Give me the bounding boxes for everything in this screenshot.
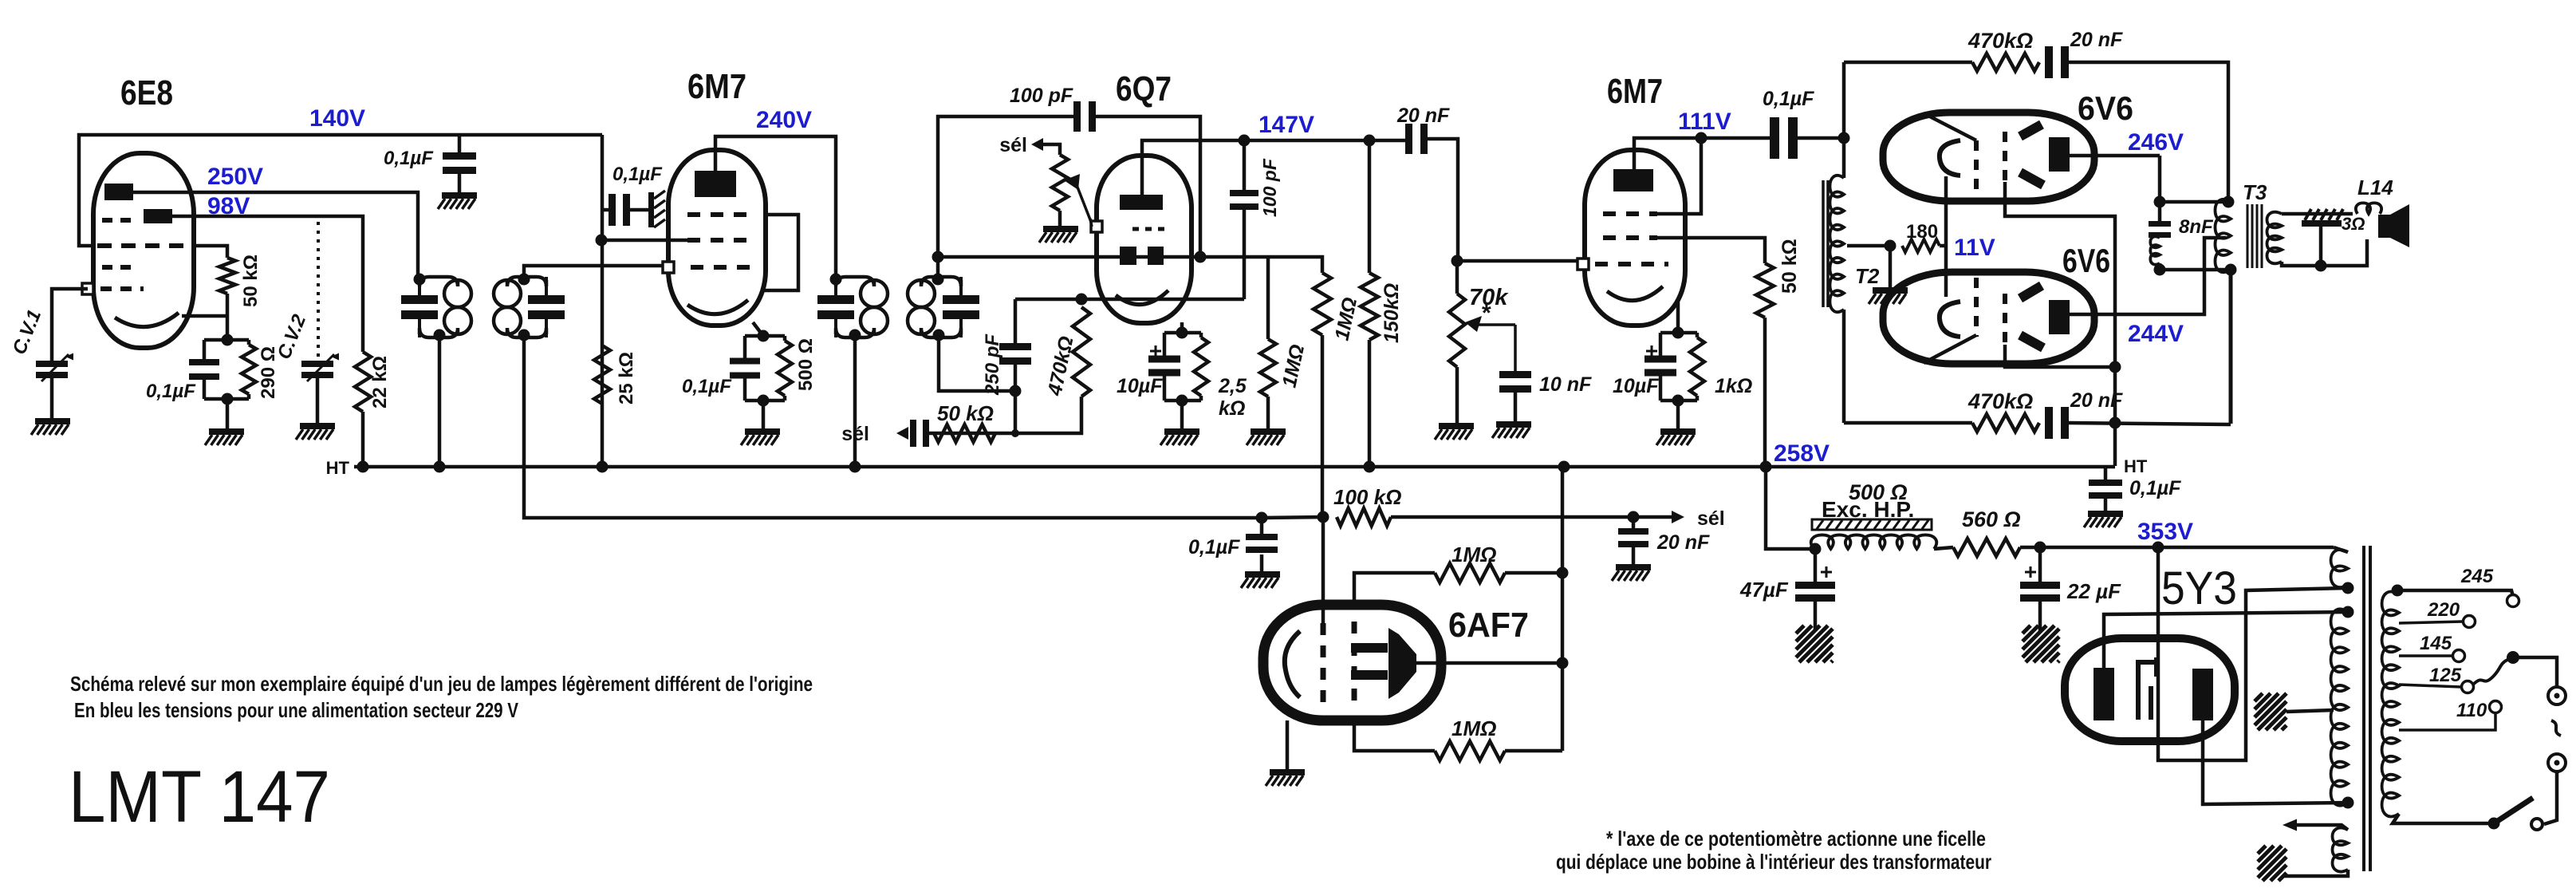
wire feedback bottom left — [1844, 421, 1972, 425]
tube 6V6 second — [1883, 272, 2094, 364]
wire grid4 to C.V.1 — [52, 289, 88, 361]
junction 250pF bottom — [1010, 385, 1022, 397]
6M7 anode plate — [695, 171, 736, 197]
label T2 — [1855, 264, 1880, 288]
resistor 470kΩ top — [1972, 53, 2039, 71]
svg-text:1MΩ: 1MΩ — [1451, 716, 1496, 740]
ground C.V.2 — [296, 423, 335, 440]
wire T3 bottom drop — [2229, 270, 2233, 424]
shield bar — [648, 191, 665, 227]
svg-text:sél: sél — [1697, 507, 1725, 530]
ground 10nF — [1492, 421, 1531, 438]
label 250V — [207, 164, 263, 190]
wire 246V — [2070, 154, 2160, 158]
6V6-1 beam plate up — [2020, 124, 2042, 136]
label 150kΩ — [1381, 283, 1403, 343]
ground HV center — [2255, 693, 2334, 730]
switch lever — [2494, 798, 2533, 823]
label 50kΩ — [240, 255, 262, 307]
junction 8nF bottom — [2154, 264, 2166, 276]
svg-text:kΩ: kΩ — [1219, 397, 1245, 420]
label 0,1µF 6E8 — [146, 381, 196, 402]
junction diode can4 — [932, 251, 944, 263]
ground 180 — [1869, 246, 1908, 304]
capacitor 22µF — [2020, 547, 2060, 602]
wire tap 145 — [2399, 654, 2452, 657]
resistor 470kΩ bottom — [1972, 414, 2039, 432]
6Q7 grid square — [1091, 221, 1102, 232]
transformer T3 primary — [2216, 199, 2231, 272]
junction can2 bottom — [518, 330, 530, 341]
wire grid 6M7-2 — [1457, 259, 1578, 263]
6V6-2 grid col2 — [2003, 294, 2007, 345]
svg-text:0,1µF: 0,1µF — [146, 381, 196, 402]
mech link C.V.2 — [317, 222, 320, 357]
junction T2 top — [1838, 132, 1850, 144]
wire 22k to HT — [361, 412, 365, 467]
label 0,1µF rail — [384, 148, 434, 169]
wire T2 bottom — [1842, 310, 1846, 423]
label 1MΩ bottom — [1451, 716, 1496, 740]
6V6-1 anode — [2049, 137, 2070, 172]
label 500Ω — [795, 338, 817, 391]
6E8 grid row 3 — [102, 265, 139, 270]
svg-text:244V: 244V — [2128, 321, 2184, 347]
svg-text:250V: 250V — [207, 164, 263, 190]
6M7 cathode — [687, 300, 748, 314]
transformer T2 winding — [1830, 176, 1844, 312]
ground 0,1µF HT — [2084, 499, 2123, 527]
svg-text:100 pF: 100 pF — [1010, 85, 1073, 107]
wire screen 6M7 — [601, 239, 687, 243]
svg-text:0,1µF: 0,1µF — [1763, 88, 1814, 110]
junction HT 22k — [357, 461, 369, 473]
svg-text:8nF: 8nF — [2179, 216, 2214, 238]
wire to T3 top — [2160, 200, 2228, 204]
wire 470k bottom — [923, 397, 1081, 433]
6V6-2 grid lead — [1924, 335, 1976, 363]
junction 111V — [1696, 132, 1707, 144]
footnote line 1 — [1606, 827, 1986, 851]
6M7-2 grid row1 — [1603, 211, 1657, 216]
svg-text:150kΩ: 150kΩ — [1381, 283, 1403, 343]
title LMT 147 — [69, 756, 330, 838]
label 258V — [1774, 440, 1830, 467]
junction 22µF — [2034, 542, 2046, 554]
6M7-2 cathode — [1607, 286, 1663, 301]
label 20 nF bottom — [2070, 389, 2123, 412]
capacitor 8nF — [2149, 221, 2171, 238]
6AF7 grid col2 — [1352, 622, 1357, 704]
tube 6M7 label — [687, 67, 746, 106]
junction feedback bottom — [2109, 417, 2121, 429]
label 180 — [1906, 221, 1938, 243]
wire 5Y3 right anode — [2203, 720, 2348, 804]
pot wiper — [1064, 174, 1091, 222]
selector contact — [2507, 651, 2519, 664]
label HT left — [326, 458, 350, 478]
svg-text:258V: 258V — [1774, 440, 1830, 467]
label C.V.1 — [9, 307, 46, 358]
svg-text:11V: 11V — [1954, 235, 1995, 261]
svg-text:HT: HT — [326, 458, 350, 478]
winding W3 — [2333, 828, 2349, 872]
svg-text:100 pF: 100 pF — [1259, 158, 1280, 217]
wire 0,1µF to T2 — [1798, 136, 1844, 140]
resistor 22kΩ — [355, 352, 371, 412]
6E8 grid row 1 — [102, 218, 139, 223]
IF can 1 — [401, 277, 471, 337]
6Q7 diode plate right — [1148, 247, 1164, 265]
svg-text:6E8: 6E8 — [120, 73, 173, 112]
label HT right — [2124, 456, 2148, 476]
svg-text:20 nF: 20 nF — [2070, 29, 2123, 51]
ground 20nF sel — [1612, 547, 1651, 581]
svg-text:180: 180 — [1906, 221, 1938, 243]
choke Exc HP coil — [1811, 535, 1936, 549]
wire 50k down — [226, 294, 230, 340]
junction can4 bottom — [933, 330, 945, 341]
6E8 anode plate — [104, 184, 133, 200]
tube 6Q7 — [1097, 156, 1191, 323]
label 470kΩ bottom — [1967, 389, 2033, 413]
label 1kΩ — [1715, 375, 1752, 397]
resistor 180 — [1902, 239, 1940, 252]
6V6-2 beam plate up — [2020, 286, 2042, 298]
label Exc HP — [1822, 497, 1914, 522]
svg-text:100 kΩ: 100 kΩ — [1333, 485, 1401, 509]
ground 500Ω — [741, 428, 780, 445]
svg-text:5Y3: 5Y3 — [2161, 562, 2237, 614]
junction 140V drop — [596, 235, 608, 247]
capacitor 10 nF — [1499, 371, 1531, 421]
wire 111V — [1634, 138, 1771, 169]
svg-text:0,1µF: 0,1µF — [1188, 536, 1240, 558]
svg-text:1MΩ: 1MΩ — [1451, 543, 1496, 566]
label 110 — [2456, 700, 2487, 721]
svg-text:2,5: 2,5 — [1218, 375, 1247, 397]
label C.V.2 — [274, 311, 311, 362]
label 0,1µF cath — [682, 376, 732, 397]
svg-text:22 kΩ: 22 kΩ — [369, 356, 391, 409]
ground pot det — [1039, 211, 1078, 243]
label 246V — [2128, 129, 2184, 156]
svg-text:HT: HT — [2124, 456, 2148, 476]
label 147V — [1258, 112, 1314, 138]
capacitor 100 pF — [1073, 101, 1096, 132]
6M7-2 grid square — [1578, 259, 1589, 270]
capacitor 250 pF — [999, 299, 1031, 391]
6V6-1 beam plate low — [2020, 172, 2043, 185]
wire T2 vertical top — [1842, 62, 1846, 178]
tube 6M7 second — [1585, 150, 1685, 326]
wire sel bus right — [1391, 515, 1675, 519]
junction W1 bottom — [2342, 582, 2354, 594]
tube 6E8 — [93, 153, 194, 348]
arrow sel 1 — [896, 427, 908, 440]
wire 246V down — [2158, 156, 2162, 221]
svg-text:140V: 140V — [309, 105, 365, 132]
wire speaker bottom — [2282, 239, 2367, 266]
label 20 nF sel — [1656, 531, 1710, 554]
label 20 nF top — [2070, 29, 2123, 51]
junction HT 140Vdrop — [597, 461, 609, 473]
6AF7 eye cone — [1388, 628, 1416, 699]
tube 6AF7 — [1263, 605, 1441, 720]
6M7 grid square — [663, 262, 674, 273]
label 500Ω choke — [1849, 480, 1908, 504]
5Y3 middle electrode — [2138, 657, 2157, 720]
label 22µF — [2066, 579, 2121, 603]
svg-text:470kΩ: 470kΩ — [1967, 29, 2033, 53]
IF can 2 — [494, 277, 565, 337]
winding W1 — [2331, 547, 2348, 587]
ground 47µF — [1796, 602, 1833, 662]
6Q7 diode plate left — [1120, 247, 1136, 265]
6E8 grid row 2 — [97, 243, 191, 248]
label 47µF — [1739, 578, 1789, 602]
wire 250pF top — [1015, 298, 1244, 302]
junction W2 top — [2342, 606, 2354, 618]
wire 140V rail — [79, 135, 602, 246]
junction sel50k — [1011, 429, 1019, 437]
wire can4 bottom down — [939, 335, 1015, 391]
capacitor 20 nF coupling — [1405, 124, 1428, 154]
svg-text:* l'axe de ce potentiomètre ac: * l'axe de ce potentiomètre actionne une… — [1606, 827, 1986, 851]
ground 22µF — [2023, 602, 2059, 662]
wire 6AF7 output — [1415, 661, 1562, 665]
resistor 100 kΩ — [1337, 508, 1391, 526]
6M7-2 grid row3 — [1595, 262, 1668, 266]
junction 246V T3 — [2154, 196, 2166, 208]
IF can 4 — [908, 277, 979, 337]
mains squiggle — [2551, 720, 2561, 736]
wire primary bottom — [2393, 814, 2488, 823]
svg-text:250 pF: 250 pF — [982, 334, 1003, 396]
svg-text:50 kΩ: 50 kΩ — [1778, 239, 1801, 294]
capacitor 0,1µF coupling out — [1770, 117, 1798, 159]
6Q7 anode plate — [1120, 195, 1163, 210]
label 22kΩ — [369, 356, 391, 409]
junction HT can1 — [434, 461, 446, 473]
capacitor 20 nF sel — [1618, 517, 1648, 547]
IF can 3 — [817, 277, 888, 337]
6E8 cathode — [115, 313, 227, 327]
wire can3 bottom to HT — [853, 335, 857, 467]
choke core — [1812, 519, 1932, 530]
wire C.V.1 to ground — [50, 378, 54, 418]
svg-text:111V: 111V — [1678, 109, 1731, 135]
cathode pair 0,1µF/500Ω 6M7 — [730, 322, 792, 407]
tube 6AF7 label — [1448, 606, 1529, 645]
capacitor 0,1µF grid 6M7 — [602, 194, 648, 226]
wire screens bottom — [2005, 345, 2115, 367]
svg-text:0,1µF: 0,1µF — [612, 164, 663, 185]
wire sel bus mid — [1262, 517, 1325, 518]
svg-text:1kΩ: 1kΩ — [1715, 375, 1752, 397]
cathode pair 10µF/1kΩ — [1644, 298, 1704, 407]
coil 8nF — [2150, 236, 2160, 264]
coil L14 3ohm — [2356, 203, 2381, 214]
pot sel wire — [1043, 144, 1060, 155]
svg-text:3Ω: 3Ω — [2342, 214, 2365, 234]
capacitor 0,1µF on 140V rail — [443, 135, 476, 192]
label 353V — [2137, 519, 2193, 545]
junction 147V 150k — [1364, 135, 1376, 147]
junction 353V — [2153, 542, 2164, 554]
junction sel 1M — [1318, 511, 1329, 523]
6V6-2 grid col1 — [1974, 278, 1979, 337]
voice coil hatched — [2302, 209, 2343, 227]
6V6-1 grid lead — [1924, 113, 1976, 140]
svg-text:0,1µF: 0,1µF — [682, 376, 732, 397]
6Q7 cathode — [1116, 290, 1168, 305]
ground 290Ω — [205, 428, 244, 445]
svg-text:500 Ω: 500 Ω — [795, 338, 817, 391]
wire 6AF7 HT drop — [1561, 467, 1565, 751]
capacitor 47µF — [1795, 549, 1835, 602]
wire can4 top up — [938, 116, 1073, 279]
terminal mains 1 — [2548, 687, 2566, 705]
wire HT bus — [354, 465, 2115, 469]
svg-text:20 nF: 20 nF — [1396, 105, 1450, 127]
svg-text:6M7: 6M7 — [687, 67, 746, 106]
wire 6E8 g2 to 50k — [194, 246, 227, 258]
6E8 grid pin square — [82, 283, 93, 294]
label 290 Ω — [258, 346, 279, 399]
resistor 1MΩ grid leak — [1260, 257, 1276, 397]
resistor 470kΩ — [1073, 307, 1090, 397]
svg-text:25 kΩ: 25 kΩ — [616, 352, 637, 405]
6E8 grid row 4 — [100, 286, 144, 291]
winding W2 HV — [2331, 609, 2348, 805]
tube 6V6-2 label — [2062, 242, 2110, 279]
label 10 nF — [1539, 373, 1592, 396]
svg-text:0,1µF: 0,1µF — [384, 148, 434, 169]
label 1MΩ leak — [1278, 342, 1309, 389]
svg-text:22 µF: 22 µF — [2066, 579, 2121, 603]
capacitor 0,1µF HT — [2089, 467, 2122, 499]
6M7 grid row2 — [687, 238, 750, 243]
label 50kΩ out — [1778, 239, 1801, 294]
label 100 pF — [1010, 85, 1073, 107]
svg-text:20 nF: 20 nF — [1656, 531, 1710, 554]
label L14 — [2357, 176, 2393, 199]
wire 5Y3 heater loop — [2158, 547, 2348, 760]
svg-text:245: 245 — [2460, 566, 2494, 587]
label 245 — [2460, 566, 2494, 587]
label 8nF — [2179, 216, 2214, 238]
6E8 second anode — [144, 209, 172, 223]
svg-text:sél: sél — [999, 134, 1027, 156]
capacitor 20 nF top — [2045, 46, 2069, 78]
terminal mains 2 — [2548, 754, 2566, 772]
wire 1M2 to bus — [1321, 335, 1325, 517]
resistor 50kΩ out — [1756, 263, 1774, 318]
speaker — [2378, 204, 2409, 247]
wire main to transformer — [2158, 546, 2334, 550]
ground 2,5k — [1160, 401, 1199, 445]
resistor 560Ω — [1934, 539, 2020, 556]
junction can2 top — [518, 274, 530, 286]
capacitor 0,1µF sel — [1246, 518, 1278, 553]
label 1MΩ second — [1330, 295, 1361, 342]
wire 240V — [715, 136, 836, 279]
ground 1k — [1656, 401, 1696, 445]
label 560Ω — [1962, 507, 2021, 531]
wire 140V drop — [601, 135, 605, 467]
tube 6M7-2 label — [1607, 72, 1663, 111]
svg-text:10µF: 10µF — [1117, 375, 1163, 397]
label 0,1µF out — [1763, 88, 1814, 110]
junction W2 bottom — [2342, 797, 2354, 809]
switch pivot — [2488, 818, 2500, 830]
wire feedback top right — [2069, 62, 2228, 202]
label 11V — [1954, 235, 1995, 261]
tube 6V6-1 label — [2078, 89, 2133, 127]
junction grid 6M7-2 — [1451, 255, 1463, 267]
junction HT choke — [1760, 461, 1772, 473]
svg-text:6V6: 6V6 — [2062, 242, 2110, 279]
junction HT 6AF7 — [1558, 461, 1570, 473]
5Y3 anode right — [2192, 669, 2213, 720]
svg-text:6AF7: 6AF7 — [1448, 606, 1529, 645]
wire 147V — [1142, 140, 1407, 195]
label 0,1µF HT — [2129, 477, 2181, 499]
tube 6Q7 label — [1116, 69, 1172, 109]
junction 47µF — [1810, 543, 1822, 555]
potentiometer detector — [1052, 155, 1068, 211]
6AF7 bar up — [1351, 643, 1388, 653]
wire wiper to grid — [1090, 219, 1092, 227]
6V6-1 grid col2 — [2003, 132, 2007, 182]
wire pair to ground — [226, 399, 230, 428]
label 50 kΩ sel — [937, 401, 994, 425]
svg-text:470kΩ: 470kΩ — [1967, 389, 2033, 413]
wire 20nF to grid node — [1428, 139, 1458, 261]
svg-text:qui déplace une bobine à l'int: qui déplace une bobine à l'intérieur des… — [1556, 850, 1991, 874]
resistor 25kΩ — [594, 345, 610, 404]
6Q7 grid dashes — [1132, 227, 1166, 231]
transformer T2 core — [1823, 180, 1828, 307]
junction primary top — [2392, 585, 2404, 597]
junction 147V 100pF — [1239, 135, 1251, 147]
5Y3 anode left — [2093, 668, 2114, 720]
junction 180 — [1885, 240, 1897, 252]
ground 6AF7 — [1266, 720, 1305, 786]
terminal 245 — [2507, 595, 2519, 607]
note line 2 — [74, 698, 519, 722]
transformer T3 core — [2247, 204, 2262, 268]
potentiometer 70k — [1449, 261, 1465, 367]
svg-text:98V: 98V — [207, 193, 250, 219]
svg-text:6M7: 6M7 — [1607, 72, 1663, 111]
junction 470k top — [1076, 294, 1088, 306]
wire 98V — [172, 216, 363, 352]
label 220 — [2427, 599, 2460, 621]
svg-text:10µF: 10µF — [1613, 375, 1659, 397]
wire g3 to 50k — [1657, 238, 1765, 263]
svg-text:50 kΩ: 50 kΩ — [240, 255, 262, 307]
6AF7 bar low — [1351, 670, 1388, 680]
wire mains switch — [2544, 772, 2557, 824]
terminal 145 — [2453, 650, 2465, 662]
svg-text:147V: 147V — [1258, 112, 1314, 138]
ground C.V.1 — [31, 418, 70, 435]
arrow sel 2 — [1031, 138, 1043, 151]
ground 0,1µF rail — [438, 192, 477, 209]
resistor 1MΩ second — [1314, 273, 1331, 335]
